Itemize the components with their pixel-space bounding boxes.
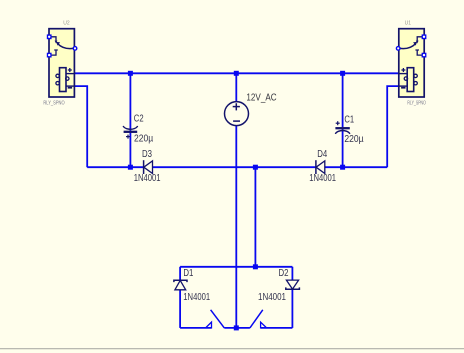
wire D2 top lead: [291, 267, 293, 280]
switch S1 lever: [211, 310, 225, 328]
svg-text:RLY_SPNO: RLY_SPNO: [43, 101, 64, 107]
relay U2 coil: [60, 68, 67, 92]
wire bridge top row: [180, 266, 292, 268]
relay U1: [396, 29, 426, 97]
wire diode row right segment: [325, 166, 387, 168]
wire node link vertical: [254, 167, 256, 267]
junction diode row / link: [253, 165, 258, 170]
relay U2: [47, 29, 77, 97]
relay U2 minus mark: [68, 87, 72, 89]
diode D1: [174, 280, 187, 290]
junction diode row / C2: [128, 165, 133, 170]
svg-text:U2: U2: [63, 20, 70, 26]
svg-text:220µ: 220µ: [344, 134, 363, 145]
source V1 minus mark: [233, 120, 240, 122]
wire C1 top lead: [342, 73, 344, 127]
wire bottom row left stub: [180, 327, 211, 329]
capacitor C2 plus mark: [126, 135, 130, 139]
wire diode row left segment: [87, 166, 143, 168]
wire C2 bottom lead: [129, 133, 131, 168]
diode D3: [144, 160, 153, 174]
wire D2 bottom lead: [291, 289, 293, 328]
capacitor C2: [123, 126, 137, 139]
relay U2 contact arm: [58, 44, 74, 49]
svg-text:220µ: 220µ: [134, 134, 153, 145]
junction top bus / C2: [128, 71, 133, 76]
svg-text:C1: C1: [344, 115, 354, 126]
junction diode row / C1: [340, 165, 345, 170]
switch S2 lever: [250, 310, 263, 328]
wire C1 bottom lead: [342, 129, 344, 167]
relay U1 coil: [407, 68, 414, 92]
relay U2 pin squares: [47, 34, 52, 39]
junction top bus / source: [234, 71, 239, 76]
svg-text:1N4001: 1N4001: [134, 173, 161, 184]
capacitor C1: [335, 121, 349, 134]
switch S2 contact: [261, 322, 267, 328]
svg-text:D2: D2: [279, 268, 289, 279]
capacitor C1 plus mark: [336, 121, 340, 125]
wire D1 top lead: [179, 267, 181, 280]
wire top AC bus: [74, 72, 398, 74]
wire source top lead: [235, 73, 237, 102]
svg-text:1N4001: 1N4001: [258, 292, 286, 303]
relay U1 plus mark: [401, 68, 405, 72]
relay U2 contact throw 1: [49, 37, 56, 41]
wire left relay coil minus to diode row: [74, 86, 87, 167]
diode D2: [286, 280, 300, 289]
wire bottom row right stub: [261, 327, 293, 329]
junction bridge row / link: [253, 264, 258, 269]
wire bottom row center segment: [224, 327, 250, 329]
relay U1 contact arm: [399, 44, 415, 49]
relay U1 minus mark: [401, 87, 405, 89]
svg-text:D4: D4: [317, 149, 327, 160]
svg-text:D3: D3: [142, 149, 152, 160]
relay U1 pin squares: [422, 34, 427, 39]
svg-text:1N4001: 1N4001: [309, 173, 336, 184]
source V1 plus mark: [233, 103, 240, 110]
relay U1 contact throw 2: [417, 50, 424, 55]
relay U2 contact throw 2: [49, 50, 56, 55]
wire right relay coil minus to diode row: [387, 86, 398, 167]
wire C2 top lead: [129, 73, 131, 131]
source V1 circle: [225, 102, 249, 126]
svg-text:RLY_SPNO: RLY_SPNO: [407, 101, 425, 107]
svg-text:C2: C2: [134, 113, 144, 124]
svg-text:12V_AC: 12V_AC: [246, 92, 277, 103]
junction top bus / C1: [340, 71, 345, 76]
switch S1 contact: [206, 322, 212, 328]
relay U2 plus mark: [68, 68, 72, 72]
svg-text:U1: U1: [405, 20, 412, 26]
wire source bottom lead down to bottom switch common: [235, 125, 237, 328]
wire D1 bottom lead: [179, 290, 181, 328]
diode D4: [316, 160, 325, 174]
svg-text:D1: D1: [183, 268, 193, 279]
wire diode row middle segment: [153, 166, 316, 168]
svg-text:1N4001: 1N4001: [183, 292, 210, 303]
junction bottom row / source return: [234, 325, 239, 330]
relay U1 contact throw 1: [417, 37, 424, 41]
